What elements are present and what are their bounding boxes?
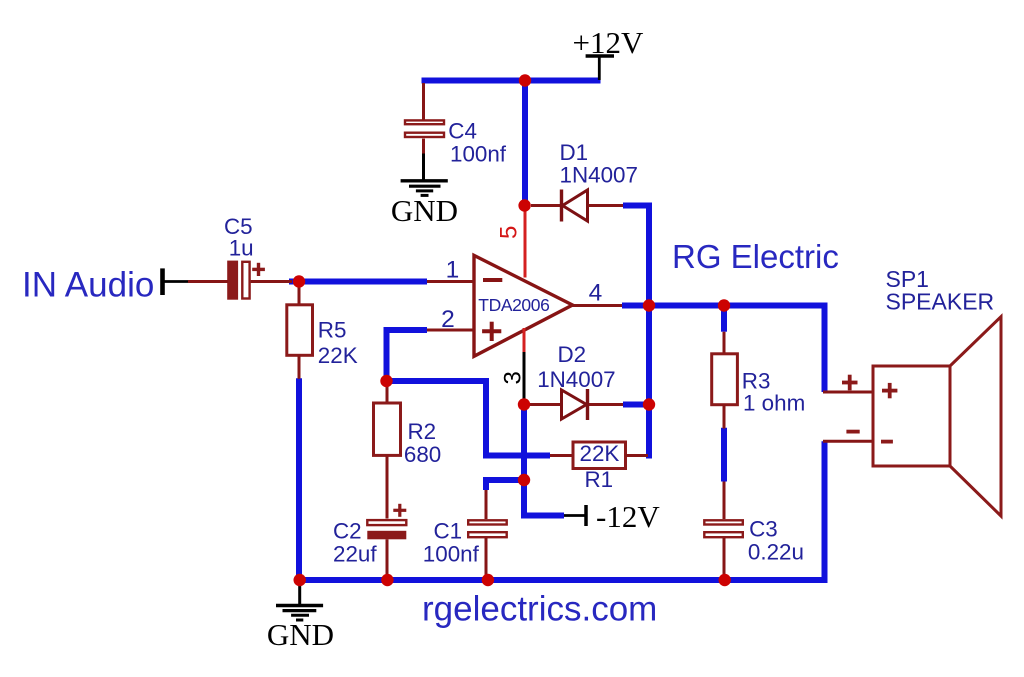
pin number 3 bbox=[500, 328, 527, 401]
wire D2 cathode stub bbox=[623, 402, 646, 408]
wire speaker minus down and bottom ground rail bbox=[300, 441, 825, 580]
svg-text:3: 3 bbox=[500, 371, 527, 384]
wire speaker plus lead bbox=[823, 391, 873, 394]
svg-text:C4: C4 bbox=[448, 119, 477, 144]
node ground rail C2 junction bbox=[381, 574, 393, 586]
diode D1 1N4007 bbox=[531, 140, 638, 222]
svg-text:R1: R1 bbox=[585, 467, 614, 492]
svg-text:SPEAKER: SPEAKER bbox=[886, 289, 995, 315]
wire pin 1 stub bbox=[427, 280, 474, 283]
node ground rail C1 junction bbox=[482, 574, 494, 586]
node IN input terminal bbox=[160, 268, 165, 295]
node D2 cathode junction bbox=[643, 398, 655, 410]
svg-text:C1: C1 bbox=[434, 519, 463, 544]
resistor R2 680 bbox=[374, 381, 442, 519]
svg-text:GND: GND bbox=[391, 193, 458, 228]
svg-text:4: 4 bbox=[589, 280, 603, 307]
svg-text:22K: 22K bbox=[318, 343, 358, 368]
node top rail junction bbox=[519, 74, 531, 86]
capacitor C2 22uf bbox=[333, 504, 406, 580]
svg-text:RG Electric: RG Electric bbox=[672, 238, 839, 275]
op-amp U1 TDA2006 bbox=[474, 255, 573, 356]
svg-text:1: 1 bbox=[446, 257, 460, 284]
svg-text:2: 2 bbox=[441, 306, 455, 333]
ground GND top bbox=[391, 154, 458, 229]
svg-text:1u: 1u bbox=[229, 236, 254, 261]
wire input node to pin 1 bbox=[289, 279, 427, 285]
svg-text:680: 680 bbox=[404, 442, 441, 467]
svg-text:0.22u: 0.22u bbox=[748, 540, 804, 565]
wire feedback node to R1 bbox=[387, 381, 551, 456]
wire output stub pin 4 bbox=[572, 304, 623, 307]
pin number 5 bbox=[496, 208, 525, 278]
svg-text:-12V: -12V bbox=[596, 499, 660, 534]
node pin3 D2 junction bbox=[518, 398, 530, 410]
svg-text:C3: C3 bbox=[749, 517, 778, 542]
svg-text:1N4007: 1N4007 bbox=[560, 162, 638, 187]
svg-text:TDA2006: TDA2006 bbox=[478, 295, 549, 315]
wire pin 2 stub bbox=[427, 329, 474, 332]
wire output node to speaker plus bbox=[622, 306, 825, 393]
svg-text:22uf: 22uf bbox=[333, 542, 377, 567]
svg-text:IN Audio: IN Audio bbox=[22, 266, 154, 305]
wire D1 anode to output column bbox=[623, 206, 649, 459]
capacitor C3 0.22u bbox=[704, 482, 804, 581]
wire input tick to C5 bbox=[164, 280, 189, 283]
svg-text:rgelectrics.com: rgelectrics.com bbox=[422, 590, 657, 629]
capacitor C4 bbox=[405, 83, 507, 166]
wire pin 2 to feedback node bbox=[387, 330, 428, 381]
svg-text:100nf: 100nf bbox=[423, 542, 480, 567]
wire R3 top stub bbox=[721, 306, 727, 332]
node R3 top junction bbox=[718, 299, 730, 311]
svg-text:C2: C2 bbox=[333, 519, 362, 544]
node pin5 D1 junction bbox=[518, 199, 530, 211]
svg-text:D1: D1 bbox=[560, 140, 589, 165]
wire R3 bottom to C3 bbox=[721, 428, 727, 482]
power -12V bbox=[564, 499, 660, 534]
speaker SP1 bbox=[842, 266, 1001, 516]
wire +12V rail down to pin5 node bbox=[522, 81, 528, 206]
wire R5 bottom to ground rail bbox=[296, 378, 302, 580]
svg-text:5: 5 bbox=[496, 226, 523, 239]
wire pin3 node down to -12V tap bbox=[524, 405, 564, 516]
node output column junction bbox=[643, 299, 655, 311]
wire speaker minus lead bbox=[823, 440, 873, 443]
svg-text:GND: GND bbox=[267, 617, 334, 652]
resistor R1 22K bbox=[550, 441, 648, 492]
svg-text:100nf: 100nf bbox=[450, 141, 507, 166]
diode D2 1N4007 bbox=[530, 342, 623, 420]
svg-text:R5: R5 bbox=[318, 318, 347, 343]
resistor R5 bbox=[287, 283, 358, 379]
wire top rail +12V bbox=[422, 78, 601, 84]
node ground rail C3 junction bbox=[719, 574, 731, 586]
wire C5 to input node bbox=[251, 280, 292, 283]
svg-text:1 ohm: 1 ohm bbox=[743, 391, 805, 416]
node input junction bbox=[293, 275, 305, 287]
capacitor C5 bbox=[224, 214, 265, 300]
svg-text:22K: 22K bbox=[580, 441, 620, 466]
svg-text:D2: D2 bbox=[558, 342, 587, 367]
svg-text:R2: R2 bbox=[408, 419, 437, 444]
node ground rail R5 junction bbox=[294, 574, 306, 586]
svg-text:1N4007: 1N4007 bbox=[537, 367, 615, 392]
node C1 junction bbox=[518, 474, 530, 486]
ground GND bottom bbox=[267, 584, 334, 652]
resistor R3 1 ohm bbox=[712, 332, 806, 429]
capacitor C1 100nf bbox=[423, 490, 507, 580]
power +12V bbox=[573, 25, 644, 80]
node feedback junction bbox=[380, 375, 392, 387]
wire C1 branch bbox=[486, 480, 524, 490]
